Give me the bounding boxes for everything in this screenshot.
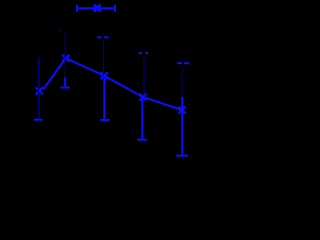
legend left cap bbox=[76, 5, 78, 12]
dark stem P3 bbox=[103, 40, 105, 75]
cap P4 top dashes bbox=[139, 52, 142, 55]
cap P3 top dashes bbox=[97, 36, 102, 38]
bright stem P3 lower bbox=[103, 78, 105, 119]
cap P5 bottom bbox=[176, 155, 188, 157]
cap P2 bottom bbox=[61, 87, 70, 89]
legend horizontal line bbox=[77, 7, 115, 9]
cap P4 bottom bbox=[137, 139, 147, 141]
dark error bar stems (navy, drawn on top) bbox=[38, 33, 182, 119]
cap P3 bottom bbox=[100, 119, 109, 121]
marker P3 bbox=[101, 72, 108, 79]
bright stem P2 lower bbox=[64, 78, 66, 87]
dark stem P2 bbox=[64, 33, 66, 78]
marker P1 bbox=[36, 87, 43, 94]
dark stem P4 bbox=[143, 57, 145, 96]
bright stem P5 lower bbox=[181, 97, 183, 155]
wire polyline through points bbox=[44, 58, 183, 110]
bright lower error stems and caps bbox=[34, 78, 189, 156]
dark stem P1 bbox=[37, 57, 39, 119]
cap P5 top dashes bbox=[177, 62, 182, 64]
legend errorbar sample (top) bbox=[77, 5, 115, 12]
marker P4 bbox=[139, 94, 146, 101]
cap P1 bottom bbox=[34, 119, 43, 121]
marker P2 bbox=[62, 55, 69, 62]
legend right cap bbox=[114, 5, 116, 12]
X markers bbox=[36, 55, 186, 114]
dark stem P5 bbox=[181, 67, 183, 97]
bright stem P4 lower bbox=[141, 97, 143, 139]
split top caps (bright dashes with black gap where dark stem crosses) bbox=[97, 37, 189, 63]
marker P5 bbox=[179, 107, 186, 114]
dim cap fragment P2 top bbox=[60, 29, 62, 31]
legend X marker bbox=[94, 5, 101, 12]
data polyline bbox=[44, 58, 183, 110]
